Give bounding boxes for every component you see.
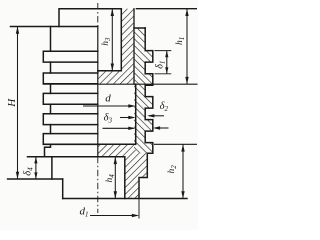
svg-text:H: H <box>6 98 18 108</box>
svg-text:d: d <box>105 92 111 104</box>
svg-text:δ2: δ2 <box>160 101 169 113</box>
svg-text:h1: h1 <box>175 37 186 45</box>
svg-text:δ3: δ3 <box>104 112 113 124</box>
svg-text:d1: d1 <box>80 206 89 219</box>
svg-text:h2: h2 <box>167 165 178 174</box>
svg-text:δ4: δ4 <box>23 167 35 176</box>
svg-text:δ1: δ1 <box>155 61 167 69</box>
svg-text:h3: h3 <box>101 37 112 46</box>
svg-text:h4: h4 <box>105 174 116 183</box>
